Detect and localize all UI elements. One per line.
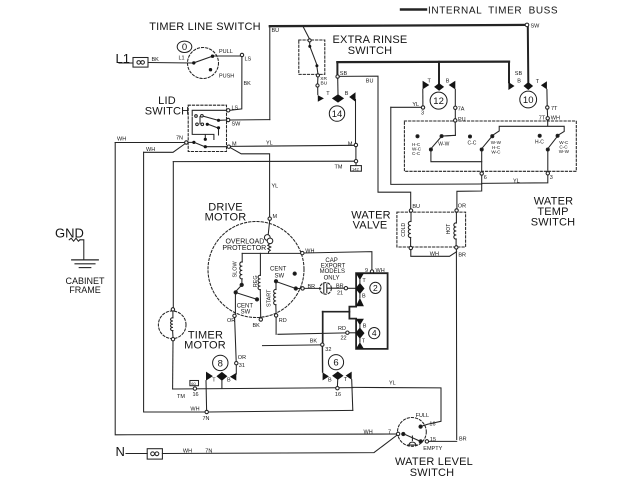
svg-text:7N: 7N xyxy=(205,449,212,455)
svg-text:16: 16 xyxy=(429,421,435,427)
svg-text:RD: RD xyxy=(279,318,287,324)
svg-text:EMPTY: EMPTY xyxy=(423,446,442,452)
svg-text:60: 60 xyxy=(191,381,196,386)
svg-text:SB: SB xyxy=(515,71,523,77)
svg-text:YL: YL xyxy=(412,102,419,108)
svg-text:L1: L1 xyxy=(116,51,130,66)
svg-text:SWITCH: SWITCH xyxy=(145,106,190,118)
svg-text:YL: YL xyxy=(272,184,279,190)
svg-text:8: 8 xyxy=(218,358,223,369)
svg-text:T: T xyxy=(362,338,366,344)
svg-text:SWITCH: SWITCH xyxy=(531,217,576,229)
svg-text:WH: WH xyxy=(146,147,155,153)
svg-text:2: 2 xyxy=(373,283,378,293)
svg-text:BU: BU xyxy=(366,79,374,85)
svg-text:B: B xyxy=(362,294,366,300)
svg-text:14: 14 xyxy=(332,109,343,120)
svg-text:SW: SW xyxy=(232,122,242,128)
svg-text:0: 0 xyxy=(182,42,187,53)
svg-text:10: 10 xyxy=(523,95,534,106)
svg-text:B: B xyxy=(227,377,231,383)
svg-text:WH: WH xyxy=(190,407,199,413)
svg-text:LS: LS xyxy=(232,106,239,112)
svg-text:BU: BU xyxy=(272,28,280,34)
svg-text:16: 16 xyxy=(193,392,199,398)
svg-text:VALVE: VALVE xyxy=(353,220,388,232)
svg-text:T: T xyxy=(536,79,540,85)
svg-text:H-C: H-C xyxy=(535,140,544,146)
svg-text:SWITCH: SWITCH xyxy=(348,45,393,57)
svg-text:BR: BR xyxy=(459,436,467,442)
svg-text:N: N xyxy=(116,444,125,459)
svg-text:HOT: HOT xyxy=(446,224,452,235)
svg-text:21: 21 xyxy=(337,290,343,296)
svg-text:B: B xyxy=(345,91,349,97)
svg-text:L1: L1 xyxy=(179,56,185,62)
svg-text:TM: TM xyxy=(335,165,343,171)
svg-text:7T: 7T xyxy=(551,106,558,112)
svg-text:W-W: W-W xyxy=(438,141,449,147)
svg-text:RD: RD xyxy=(338,326,346,332)
svg-text:WH: WH xyxy=(430,252,439,258)
svg-text:BK: BK xyxy=(310,339,318,345)
svg-text:7N: 7N xyxy=(203,416,210,422)
svg-text:WH: WH xyxy=(183,449,192,455)
svg-text:START: START xyxy=(266,289,272,307)
svg-text:WH: WH xyxy=(117,137,126,143)
svg-text:ONLY: ONLY xyxy=(324,275,340,281)
svg-text:WH: WH xyxy=(376,268,385,274)
svg-text:MODELS: MODELS xyxy=(320,269,345,275)
svg-text:WH: WH xyxy=(305,249,314,255)
svg-text:C-C: C-C xyxy=(468,141,477,147)
svg-text:142: 142 xyxy=(352,166,359,171)
svg-text:TM: TM xyxy=(177,394,185,400)
svg-text:7A: 7A xyxy=(458,106,465,112)
svg-text:M: M xyxy=(348,142,353,148)
svg-text:B: B xyxy=(517,78,521,84)
svg-text:YL: YL xyxy=(513,178,520,184)
svg-text:M: M xyxy=(232,142,237,148)
svg-text:16: 16 xyxy=(335,392,341,398)
svg-text:BK: BK xyxy=(152,57,160,63)
svg-text:WH: WH xyxy=(551,116,560,122)
svg-text:INTERNAL TIMER BUSS: INTERNAL TIMER BUSS xyxy=(428,6,558,17)
svg-text:YL: YL xyxy=(389,380,396,386)
svg-text:15: 15 xyxy=(430,437,436,443)
svg-text:CENT: CENT xyxy=(237,303,254,309)
svg-text:B: B xyxy=(446,78,450,84)
svg-text:3: 3 xyxy=(421,110,424,116)
svg-text:WH: WH xyxy=(364,429,373,435)
svg-text:T: T xyxy=(212,377,216,383)
svg-text:B: B xyxy=(328,378,332,384)
svg-text:7T: 7T xyxy=(539,116,546,122)
svg-text:REG: REG xyxy=(253,275,259,287)
svg-text:BR: BR xyxy=(458,253,466,259)
svg-text:BK: BK xyxy=(244,81,252,87)
svg-text:32: 32 xyxy=(325,347,331,353)
svg-text:MOTOR: MOTOR xyxy=(184,340,226,352)
svg-text:T: T xyxy=(362,278,366,284)
svg-text:6: 6 xyxy=(484,175,487,181)
svg-text:M: M xyxy=(273,214,278,220)
svg-text:B: B xyxy=(363,323,367,329)
svg-text:BU: BU xyxy=(321,80,328,86)
svg-text:OR: OR xyxy=(238,355,246,361)
svg-text:OR: OR xyxy=(458,204,466,210)
svg-text:W-C: W-C xyxy=(491,149,501,154)
svg-text:FRAME: FRAME xyxy=(69,285,101,295)
svg-text:FULL: FULL xyxy=(416,413,429,419)
svg-text:PROTECTOR: PROTECTOR xyxy=(222,245,266,252)
svg-text:3: 3 xyxy=(550,175,553,181)
svg-text:YL: YL xyxy=(266,141,273,147)
svg-text:BR: BR xyxy=(336,284,344,290)
svg-text:LS: LS xyxy=(245,57,252,63)
svg-text:SB: SB xyxy=(340,71,348,77)
svg-text:PU: PU xyxy=(458,117,466,123)
svg-text:SW: SW xyxy=(241,310,251,316)
svg-text:BK: BK xyxy=(253,323,261,329)
svg-text:9: 9 xyxy=(365,268,368,274)
svg-text:T: T xyxy=(344,377,348,383)
svg-text:T: T xyxy=(326,91,330,97)
svg-text:BR: BR xyxy=(308,284,316,290)
svg-text:C-C: C-C xyxy=(412,151,421,156)
svg-text:GND: GND xyxy=(55,225,84,240)
svg-text:7: 7 xyxy=(388,429,391,435)
svg-text:22: 22 xyxy=(341,336,347,342)
svg-text:BU: BU xyxy=(412,204,420,210)
svg-text:4: 4 xyxy=(372,328,377,338)
svg-text:SW: SW xyxy=(274,273,284,279)
svg-text:OR: OR xyxy=(227,318,235,324)
svg-text:SLOW: SLOW xyxy=(232,260,238,277)
svg-text:PULL: PULL xyxy=(219,49,233,55)
svg-text:6: 6 xyxy=(333,358,338,369)
svg-text:T: T xyxy=(428,78,432,84)
svg-text:31: 31 xyxy=(239,363,245,369)
svg-text:SW: SW xyxy=(531,24,541,30)
svg-text:COLD: COLD xyxy=(401,223,407,237)
svg-text:12: 12 xyxy=(433,96,444,107)
svg-text:PUSH: PUSH xyxy=(219,74,234,80)
svg-text:CENT: CENT xyxy=(270,267,287,273)
svg-text:7N: 7N xyxy=(176,136,183,142)
svg-text:W-W: W-W xyxy=(559,149,570,154)
svg-text:MOTOR: MOTOR xyxy=(205,211,247,223)
svg-text:TIMER LINE SWITCH: TIMER LINE SWITCH xyxy=(149,21,261,33)
svg-text:SWITCH: SWITCH xyxy=(410,467,455,479)
